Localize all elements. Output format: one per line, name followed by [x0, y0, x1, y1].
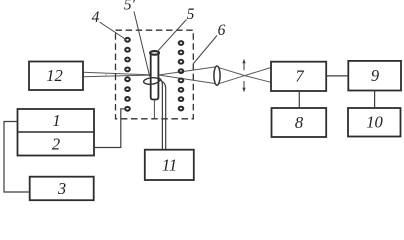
label 4 with leader	[92, 9, 126, 40]
wire box 7 to box 9	[326, 75, 348, 77]
svg-text:7: 7	[295, 67, 304, 86]
svg-text:3: 3	[57, 179, 66, 198]
beam from lens through focus into box 7	[217, 67, 271, 84]
lens	[214, 66, 220, 85]
svg-text:5: 5	[187, 6, 195, 23]
right coil column (winding turns)	[179, 41, 184, 110]
wire box 7 to box 8	[298, 91, 300, 108]
wire from box 2 to coil bottom turn	[94, 109, 125, 148]
left coil column (winding turns)	[125, 38, 130, 111]
svg-text:11: 11	[162, 156, 177, 175]
box 12	[29, 62, 83, 91]
label 5 with leader	[158, 6, 195, 51]
svg-text:4: 4	[92, 9, 100, 26]
tick mark on beam	[105, 73, 107, 78]
svg-text:8: 8	[295, 113, 304, 132]
support wire from rod bottom to enclosure edge	[153, 100, 155, 118]
label 6 with leader	[194, 22, 226, 64]
box 7	[271, 62, 326, 91]
sample rod (holder)	[150, 51, 159, 99]
sample loop ring around rod	[143, 77, 159, 85]
svg-text:1: 1	[52, 111, 60, 130]
svg-text:2: 2	[52, 134, 60, 153]
arrow down at focus	[242, 81, 245, 92]
beam from box 12 to sample rod	[83, 72, 150, 77]
box 11	[145, 150, 194, 180]
arrow up at focus	[242, 59, 245, 71]
beam from sample rod to lens	[159, 67, 217, 84]
svg-text:10: 10	[366, 113, 383, 132]
box 3	[30, 177, 94, 201]
dashed furnace enclosure	[116, 30, 194, 119]
svg-text:12: 12	[46, 66, 63, 85]
svg-text:9: 9	[371, 66, 379, 85]
svg-text:6: 6	[218, 22, 226, 39]
box 2 (shares frame with box 1, divider)	[18, 132, 95, 153]
box 1	[18, 109, 95, 156]
wire box 9 to box 10	[374, 91, 376, 109]
box 10	[348, 108, 401, 137]
wires from loop down to box 11	[159, 78, 166, 150]
box 9	[348, 61, 401, 91]
label 5' with leader	[124, 0, 150, 77]
bracket wire joining boxes 1-2 to box 3	[4, 122, 30, 193]
box 8	[272, 108, 327, 137]
